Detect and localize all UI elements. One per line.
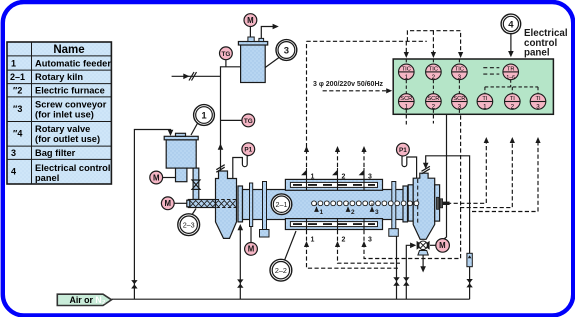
wire dashed kiln internal axis — [310, 202, 447, 204]
valve on feeder riser — [131, 280, 137, 288]
leader 1 to feeder — [191, 122, 199, 136]
svg-text:2: 2 — [351, 209, 355, 216]
arrow down TIC2 — [431, 52, 436, 58]
instrument TIC3 — [452, 64, 468, 81]
wire riser to rotary valve — [406, 245, 411, 299]
svg-text:3: 3 — [11, 148, 16, 158]
wire purge riser inlet hood bottom — [239, 226, 241, 299]
svg-text:TR: TR — [507, 66, 515, 72]
arrowheads for dashed network — [304, 52, 541, 247]
svg-text:1: 1 — [320, 209, 324, 216]
outlet hood flange right — [435, 185, 440, 221]
wire dashed riser sensor3 kiln-top — [363, 148, 365, 167]
svg-text:SCR: SCR — [427, 96, 439, 102]
wire 4-circle to panel — [510, 34, 512, 55]
svg-text:1–6: 1–6 — [506, 75, 515, 81]
breaker on feed line — [189, 72, 430, 174]
wire dashed kiln axis to TI3 — [472, 140, 538, 212]
P1b — [397, 143, 410, 156]
svg-text:1: 1 — [311, 174, 315, 181]
svg-text:TI: TI — [535, 96, 540, 102]
wire dashed 3-phase feed arrow — [323, 90, 388, 92]
instrument TR1-6 — [503, 64, 519, 81]
motor M feeder — [150, 171, 163, 184]
arrow right into rotary valve — [410, 243, 416, 249]
wire TG1 stub — [225, 60, 227, 67]
bottom electric furnace — [285, 219, 382, 230]
svg-text:Automatic feeder: Automatic feeder — [35, 59, 111, 69]
svg-text:Air or N₂: Air or N₂ — [70, 295, 106, 305]
instrument TI2 — [505, 94, 521, 111]
top bag filter body — [241, 45, 266, 83]
wire dashed kiln axis to TI1 — [447, 140, 486, 203]
arrow down TIC1 — [404, 52, 409, 58]
svg-text:M: M — [247, 16, 254, 25]
wire kiln drive M stub — [250, 227, 252, 243]
arrow down 4 to panel — [508, 51, 514, 57]
axis tick 1 — [317, 203, 373, 209]
svg-text:2–1: 2–1 — [10, 72, 25, 82]
wire riser to feeder top — [134, 130, 170, 300]
rotary kiln shell — [243, 190, 407, 220]
svg-text:Electrical control: Electrical control — [35, 163, 110, 173]
svg-text:P1: P1 — [244, 147, 252, 154]
outlet hood — [413, 173, 435, 239]
svg-text:TI: TI — [482, 96, 487, 102]
arrow down onto feeder — [168, 130, 174, 136]
svg-text:TG: TG — [244, 118, 253, 125]
svg-text:2: 2 — [432, 104, 436, 111]
svg-text:TIC: TIC — [402, 66, 411, 72]
wire screw M stub — [174, 202, 188, 204]
kiln riding ring left1 — [250, 183, 253, 227]
valve on feeder pipe — [192, 180, 200, 189]
TR dashed stubs — [483, 68, 499, 74]
instrument TI3 — [530, 94, 546, 111]
svg-text:3: 3 — [536, 104, 540, 111]
arrow up TI1 — [484, 137, 489, 143]
arrow down discharge — [420, 266, 426, 272]
wire dashed bottom riser heater2 — [338, 114, 434, 263]
wire dashed lower bus to TIC1 — [307, 41, 427, 55]
wire P1b pigtail — [402, 156, 417, 178]
svg-text:1: 1 — [11, 59, 16, 69]
wire rotary valve discharge — [422, 252, 424, 270]
kiln outlet end plate — [403, 186, 408, 222]
svg-text:2: 2 — [511, 104, 515, 111]
P1a — [242, 143, 255, 156]
panel internal dashed stubs — [406, 59, 459, 114]
solid arrowheads — [168, 24, 514, 273]
node 4 — [501, 14, 521, 34]
wire bagfilter M stub — [249, 26, 251, 37]
wire panel to rotary valve motor — [443, 114, 447, 239]
rotameter — [467, 253, 472, 266]
svg-text:2: 2 — [342, 237, 346, 244]
arrow right 3-phase — [386, 88, 392, 93]
wire rotary valve M stub — [430, 244, 436, 246]
wire dashed bottom riser heater1 — [307, 114, 407, 268]
kiln support foot right — [389, 229, 399, 237]
arrow up sensor3 — [361, 146, 366, 152]
wire TG2 stub — [221, 119, 243, 121]
hood level dashed — [417, 179, 419, 224]
svg-text:1: 1 — [405, 74, 409, 81]
table grid — [7, 42, 111, 184]
svg-text:(for inlet use): (for inlet use) — [35, 110, 94, 120]
svg-text:′′4: ′′4 — [13, 129, 22, 139]
sensor stems through furnaces — [307, 179, 365, 230]
node 2-3 — [178, 214, 200, 236]
wire purge riser with rotameter — [426, 156, 470, 299]
svg-text:1: 1 — [483, 104, 487, 111]
svg-text:3: 3 — [368, 174, 372, 181]
svg-text:3: 3 — [284, 45, 289, 56]
svg-text:3 φ 200/220v 50/60Hz: 3 φ 200/220v 50/60Hz — [313, 81, 384, 88]
arrow up heater2 — [335, 241, 340, 247]
TG1 — [220, 47, 233, 60]
rotary valve — [417, 241, 430, 255]
arrow up sensor2 — [335, 146, 340, 152]
arrow up TI3 — [535, 137, 540, 143]
svg-text:Name: Name — [53, 44, 84, 56]
valve on rv riser — [403, 277, 409, 285]
svg-text:M: M — [153, 173, 160, 182]
svg-text:1: 1 — [201, 110, 207, 121]
wire feed line to main riser — [172, 75, 221, 77]
svg-text:Electric furnace: Electric furnace — [35, 86, 105, 96]
svg-text:Screw conveyor: Screw conveyor — [35, 100, 107, 110]
top bag filter cap — [238, 42, 267, 46]
arrow down TIC3 — [458, 52, 463, 58]
arrow right exhaust — [273, 24, 279, 30]
wire P1a pigtail — [233, 156, 247, 179]
svg-text:TIC: TIC — [429, 66, 438, 72]
svg-text:TI: TI — [510, 96, 515, 102]
top electric furnace — [285, 179, 382, 190]
svg-text:3: 3 — [375, 209, 379, 216]
leader 2-2 to furnace — [285, 231, 297, 260]
TG2 — [242, 114, 255, 127]
wire bagfilter exhaust — [261, 27, 276, 39]
svg-text:panel: panel — [35, 173, 59, 183]
arrow up purge inlet hood — [238, 224, 244, 230]
wire dashed riser sensor1 kiln-top to upper bus — [306, 41, 308, 167]
TR to TI dashed — [485, 79, 538, 94]
instrument TI1 — [477, 94, 493, 111]
svg-text:Rotary kiln: Rotary kiln — [35, 72, 83, 82]
leader 3 to bagfilter — [265, 58, 279, 68]
outlet hood flange left — [408, 185, 413, 221]
kiln support foot left — [260, 230, 270, 238]
thermocouple shaft — [437, 197, 440, 209]
svg-text:panel: panel — [524, 48, 550, 59]
node 2-1 — [271, 194, 292, 215]
svg-text:3: 3 — [368, 237, 372, 244]
valve on rotameter riser — [466, 279, 472, 287]
svg-text:TG: TG — [221, 51, 230, 58]
screw conveyor tube — [188, 200, 215, 208]
wire feeder M stub — [162, 177, 175, 179]
screw conveyor left cap — [187, 200, 190, 207]
instrument TIC1 — [399, 64, 415, 81]
wire dashed riser sensor2 kiln-top — [337, 148, 339, 167]
breaker on main riser — [216, 165, 224, 173]
automatic feeder lid — [164, 136, 198, 140]
motor M screw — [161, 197, 174, 210]
svg-text:1: 1 — [405, 104, 409, 111]
node 1 — [194, 105, 215, 126]
valve on support riser — [393, 277, 399, 285]
wire dashed kiln axis to TI2 — [460, 140, 512, 208]
svg-text:3: 3 — [458, 74, 462, 81]
svg-text:1: 1 — [311, 237, 315, 244]
kiln riding ring left2 — [263, 182, 267, 230]
screw tube dashed continuation — [216, 200, 237, 208]
svg-text:SCR: SCR — [400, 96, 412, 102]
svg-text:4: 4 — [508, 19, 514, 30]
instrument SCR3 — [452, 94, 468, 111]
wire dashed bottom riser heater3 — [364, 114, 461, 258]
thermowell top 1 — [307, 168, 365, 180]
feeder drop pipe — [193, 168, 199, 199]
svg-text:M: M — [439, 241, 446, 250]
svg-text:′′3: ′′3 — [13, 104, 22, 114]
motor M bagfilter — [244, 14, 257, 27]
svg-text:2–3: 2–3 — [183, 220, 195, 229]
wire air header — [112, 298, 470, 300]
svg-text:SCR: SCR — [453, 96, 465, 102]
svg-text:M: M — [165, 199, 172, 208]
svg-text:TIC: TIC — [455, 66, 464, 72]
arrow down purge outlet hood — [423, 163, 429, 169]
breaker on outlet purge — [422, 166, 430, 174]
instrument SCR2 — [426, 94, 442, 111]
kiln riding ring right — [392, 182, 396, 230]
wire main riser hood to bagfilter — [221, 67, 241, 172]
motor M kiln drive — [245, 243, 258, 256]
node 3 — [276, 40, 297, 61]
kiln axis sensor chain — [312, 201, 419, 206]
kiln inlet end plate — [238, 186, 243, 222]
table background — [7, 42, 111, 184]
top bag filter knob2 — [259, 38, 264, 41]
svg-text:′′2: ′′2 — [13, 86, 22, 96]
inlet hood — [216, 171, 237, 238]
svg-text:P1: P1 — [399, 147, 407, 154]
arrow right feed line — [183, 74, 189, 80]
svg-text:2–1: 2–1 — [276, 200, 288, 209]
top bag filter knob1 — [248, 37, 254, 42]
svg-text:(for outlet use): (for outlet use) — [35, 134, 100, 144]
svg-text:3: 3 — [458, 104, 462, 111]
panel box U1 — [393, 59, 553, 114]
air flag — [57, 294, 111, 305]
automatic feeder knob — [176, 133, 186, 136]
motor M rotary valve — [436, 239, 450, 253]
svg-text:Bag filter: Bag filter — [35, 148, 76, 158]
arrow up sensor1 — [304, 146, 309, 152]
leader 2-3 to screw — [192, 209, 197, 216]
automatic feeder lower housing — [176, 168, 187, 182]
instrument TIC2 — [426, 64, 442, 81]
svg-text:2: 2 — [342, 174, 346, 181]
svg-text:M: M — [248, 245, 255, 254]
wire riser kiln right support — [396, 237, 398, 300]
arrow up on main riser — [218, 144, 224, 150]
arrow up TI2 — [510, 137, 515, 143]
screw flights — [190, 201, 236, 207]
valve on inlet purge — [237, 279, 243, 287]
svg-text:2: 2 — [432, 74, 436, 81]
svg-text:4: 4 — [11, 167, 16, 177]
automatic feeder body — [166, 140, 196, 168]
instrument SCR1 — [399, 94, 415, 111]
svg-text:2–2: 2–2 — [275, 266, 287, 275]
wire dashed upper bus to TIC2 TIC3 — [407, 31, 460, 55]
node 2-2 — [270, 259, 292, 281]
svg-text:Rotary valve: Rotary valve — [35, 124, 90, 134]
bottom valves — [131, 277, 473, 288]
arrow up heater1 — [304, 241, 309, 247]
arrow up heater3 — [361, 241, 366, 247]
